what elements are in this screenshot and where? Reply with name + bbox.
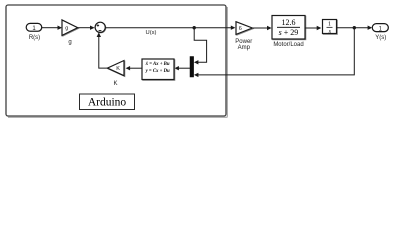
mux	[190, 57, 194, 78]
input port R(s)	[26, 23, 42, 40]
node U(s) branch junction	[193, 26, 196, 29]
node Y branch junction	[353, 26, 356, 29]
svg-text:R(s): R(s)	[29, 35, 40, 41]
wire g to sum	[78, 26, 95, 30]
svg-text:g: g	[65, 26, 68, 32]
svg-text:12.6: 12.6	[282, 18, 296, 27]
wire K to sum (minus input)	[97, 32, 108, 68]
wire mux to state-space	[174, 66, 190, 70]
svg-text:Motor/Load: Motor/Load	[273, 42, 303, 48]
wire state-space to gain K	[126, 66, 142, 70]
output port Y(s)	[372, 24, 388, 41]
sum junction (+/-)	[95, 22, 106, 33]
svg-text:s + 29: s + 29	[279, 28, 299, 37]
svg-text:K: K	[113, 81, 117, 87]
subsystem border (Arduino board outline)	[6, 5, 228, 117]
gain g	[62, 20, 79, 46]
wire U(s) branch to mux input 1	[194, 28, 207, 65]
wire integrator to Y(s)	[337, 26, 373, 30]
wire Power Amp to Motor/Load	[252, 26, 271, 30]
wire Motor/Load to integrator	[305, 26, 321, 30]
svg-text:6: 6	[239, 26, 242, 32]
svg-text:Amp: Amp	[238, 45, 251, 51]
svg-text:U(s): U(s)	[146, 30, 157, 36]
svg-text:1: 1	[328, 22, 331, 28]
integrator 1/s	[323, 20, 338, 35]
state-space observer block	[142, 59, 175, 80]
annotation box Arduino	[80, 94, 135, 110]
power amp gain (6)	[235, 22, 253, 52]
signal label U(s)	[146, 30, 157, 36]
svg-text:ẋ = Ax + Bu: ẋ = Ax + Bu	[145, 62, 170, 67]
transfer function Motor/Load 12.6/(s+29)	[272, 16, 306, 49]
svg-text:Y(s): Y(s)	[375, 35, 386, 41]
svg-text:g: g	[68, 40, 71, 46]
svg-text:K: K	[116, 66, 120, 72]
feedback wire Y to mux input 2	[194, 28, 354, 77]
wire R(s) to gain g	[42, 26, 62, 30]
wire sum to Power Amp	[105, 26, 235, 30]
gain K (feedback, points left)	[107, 61, 124, 88]
svg-text:y = Cx + Du: y = Cx + Du	[145, 69, 170, 74]
svg-text:Arduino: Arduino	[88, 97, 127, 109]
